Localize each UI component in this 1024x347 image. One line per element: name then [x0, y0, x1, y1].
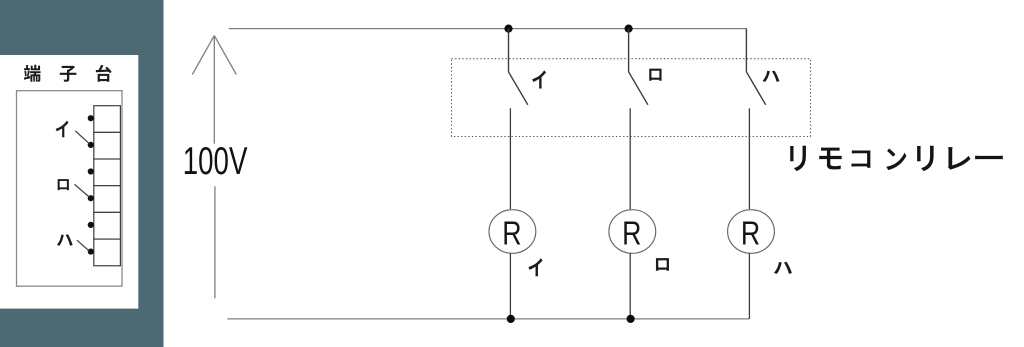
wire: lamp 1 to bottom: [509, 253, 511, 319]
white inset card: [0, 55, 138, 309]
top wire: [229, 28, 747, 30]
terminal dot 6: [88, 249, 94, 255]
source arrow (100V): [192, 36, 236, 144]
switch label ロ: [649, 69, 661, 81]
terminal block outer box: [17, 91, 123, 287]
dashed relay enclosure box: [452, 59, 811, 137]
svg-text:R: R: [741, 215, 760, 252]
teal side panel background: [0, 0, 164, 347]
leader wire ロ: [75, 184, 90, 197]
terminal block cell column (6 cells): [94, 106, 121, 266]
wire: switch イ to lamp 1: [509, 108, 511, 209]
wire bend top right corner: [745, 28, 747, 29]
wire: switch ロ to lamp 2: [629, 108, 631, 209]
wire: lamp 2 to bottom: [629, 253, 631, 319]
switch ハ (S3): [746, 29, 765, 105]
svg-text:100V: 100V: [183, 140, 248, 183]
terminal label ロ: [58, 179, 69, 190]
leader wire ハ: [77, 240, 89, 251]
wire: switch ハ to lamp 3: [748, 108, 750, 209]
terminal dot 5: [88, 222, 94, 228]
switch label ハ: [762, 71, 779, 82]
lamp subscript ハ: [774, 262, 792, 274]
label リモコンリレー: [790, 146, 1003, 171]
terminal dot 4: [88, 195, 94, 201]
lamp Rハ (load 3): [728, 210, 775, 254]
label 端子台 (terminal block title): [24, 65, 112, 82]
bottom wire: [227, 318, 749, 320]
terminal dot 3: [88, 168, 94, 174]
lamp subscript ロ: [656, 258, 669, 271]
wire: lamp 3 to bottom: [748, 253, 750, 319]
terminal dot 2: [88, 142, 94, 148]
terminal label ハ: [57, 234, 73, 245]
terminal dot 1: [88, 115, 94, 121]
svg-text:R: R: [502, 215, 521, 252]
switch イ (S1): [509, 29, 528, 105]
svg-text:R: R: [622, 215, 641, 252]
switch label イ: [532, 70, 546, 88]
switch ロ (S2): [629, 29, 648, 105]
junction dot bottom node 2: [627, 315, 635, 323]
terminal label イ: [56, 121, 69, 138]
junction dot bottom node 1: [507, 315, 515, 323]
lamp subscript イ: [528, 258, 542, 276]
source wire lower segment: [214, 186, 216, 298]
junction dot top node 1: [504, 25, 512, 33]
leader wire イ: [75, 131, 89, 144]
lamp Rロ (load 2): [609, 210, 656, 254]
lamp Rイ (load 1): [489, 210, 536, 254]
junction dot top node 2: [625, 25, 633, 33]
